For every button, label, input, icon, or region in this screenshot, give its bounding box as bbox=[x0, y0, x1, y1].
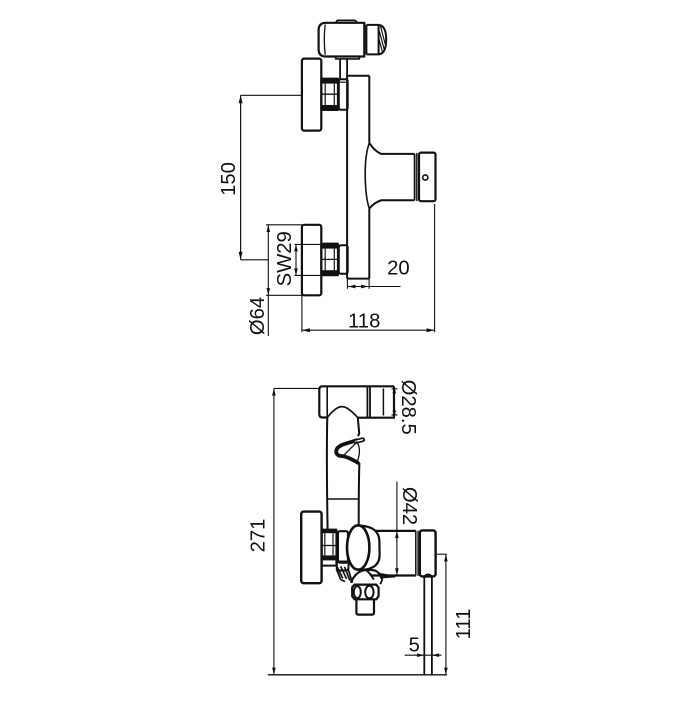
svg-text:150: 150 bbox=[218, 162, 240, 196]
svg-text:5: 5 bbox=[409, 635, 420, 657]
svg-text:118: 118 bbox=[348, 310, 380, 332]
svg-text:Ø28.5: Ø28.5 bbox=[397, 380, 419, 435]
svg-text:Ø64: Ø64 bbox=[247, 297, 269, 335]
svg-text:20: 20 bbox=[387, 258, 410, 280]
svg-text:111: 111 bbox=[453, 609, 475, 640]
svg-text:Ø42: Ø42 bbox=[398, 487, 420, 525]
svg-text:271: 271 bbox=[248, 519, 270, 553]
svg-text:SW29: SW29 bbox=[274, 231, 296, 286]
